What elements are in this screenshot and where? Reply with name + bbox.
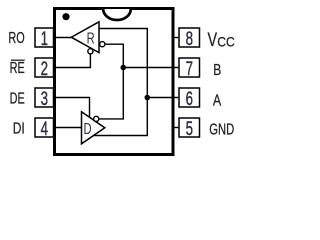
wire pin4 DI to driver input bbox=[54, 127, 81, 129]
wire net A: receiver noninverting input, vertical bus, driver noninverting output bbox=[94, 29, 148, 136]
junction node A (net A joins pin 6) bbox=[145, 95, 151, 101]
wire pin6 A to net A bbox=[147, 97, 179, 99]
driver inverting output bubble bbox=[94, 116, 99, 121]
pin 3 box bbox=[35, 88, 54, 107]
receiver R triangle bbox=[71, 22, 99, 53]
wire pin5 stub bbox=[172, 127, 179, 129]
wire pin1 to receiver output bbox=[54, 37, 72, 39]
receiver enable bubble bbox=[88, 49, 93, 54]
pin 1 box bbox=[35, 28, 54, 47]
svg-text:D: D bbox=[84, 119, 92, 138]
junction node B (net B joins pin 7) bbox=[121, 65, 127, 71]
receiver inverting input bubble bbox=[100, 42, 105, 47]
svg-text:3: 3 bbox=[41, 89, 48, 110]
pin 2 box bbox=[35, 58, 54, 77]
pin 5 box bbox=[179, 118, 200, 137]
svg-text:R: R bbox=[87, 28, 95, 47]
driver D triangle bbox=[82, 112, 105, 144]
wire pin2 to receiver enable bubble bbox=[54, 54, 90, 68]
svg-text:A: A bbox=[213, 92, 222, 110]
svg-text:4: 4 bbox=[41, 119, 48, 140]
wire pin3 DE to driver enable bbox=[54, 98, 90, 118]
svg-text:DE: DE bbox=[10, 89, 25, 107]
svg-text:CC: CC bbox=[217, 34, 235, 50]
pin 1 indicator dot bbox=[62, 13, 69, 20]
svg-text:7: 7 bbox=[186, 59, 193, 80]
svg-text:6: 6 bbox=[186, 89, 193, 110]
svg-text:B: B bbox=[213, 60, 221, 78]
svg-text:RE: RE bbox=[10, 59, 25, 77]
svg-text:V: V bbox=[208, 28, 218, 51]
wire pin7 B to net B bbox=[123, 67, 179, 69]
wire net B: receiver inverting input, vertical bus, driver inverting output bbox=[99, 44, 124, 119]
pin 8 box bbox=[179, 28, 200, 47]
svg-text:1: 1 bbox=[41, 29, 48, 50]
svg-text:DI: DI bbox=[13, 119, 25, 137]
notch (pin-1 end indicator semicircle) bbox=[103, 9, 131, 20]
pin 4 box bbox=[35, 118, 54, 137]
IC body U1 (8-pin DIP outline) bbox=[55, 9, 174, 155]
wire pin8 stub bbox=[172, 37, 179, 39]
svg-text:2: 2 bbox=[41, 59, 48, 80]
label RE overline bbox=[11, 59, 25, 61]
svg-text:GND: GND bbox=[209, 120, 234, 139]
svg-text:8: 8 bbox=[186, 29, 193, 50]
pin 7 box bbox=[179, 58, 200, 77]
svg-text:5: 5 bbox=[186, 119, 193, 140]
pin 6 box bbox=[179, 88, 200, 107]
svg-text:RO: RO bbox=[8, 29, 24, 47]
